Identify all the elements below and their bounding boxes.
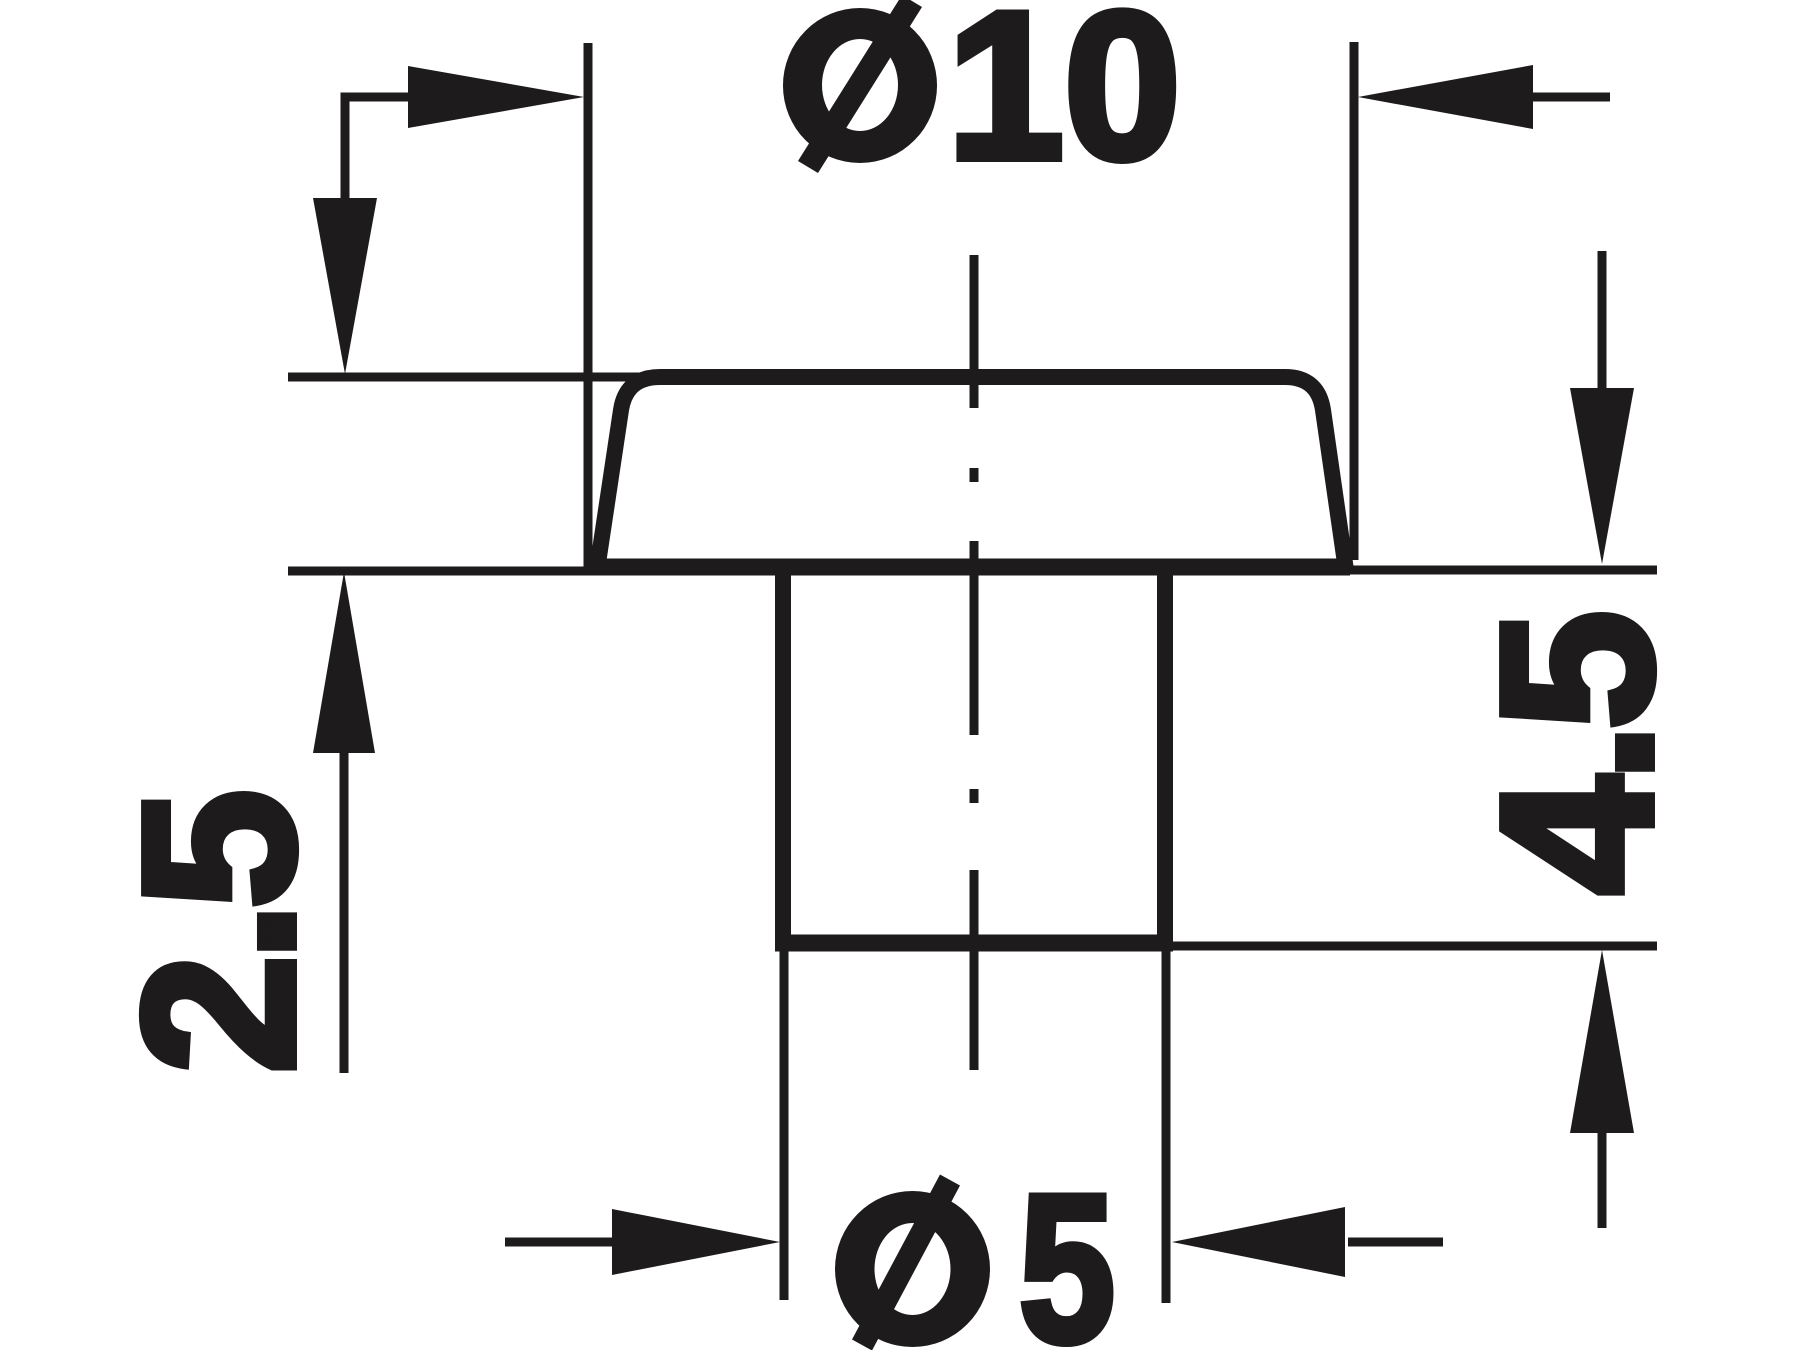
arrowhead Ø5 left (points right) bbox=[612, 1209, 780, 1275]
svg-text:4.5: 4.5 bbox=[1456, 616, 1697, 895]
arrowhead 2.5 upper (points down) bbox=[313, 198, 377, 374]
4.5 dimension tail lower bbox=[1598, 1130, 1607, 1228]
arrowhead Ø10 right (points left) bbox=[1358, 65, 1533, 129]
top plane line bbox=[288, 373, 664, 382]
centerline dash segment 2 bbox=[970, 541, 979, 735]
part outline: shank left side bbox=[775, 567, 791, 943]
centerline dash segment 3 bbox=[970, 870, 979, 1070]
centerline dash segment 1 bbox=[970, 255, 979, 408]
svg-text:10: 10 bbox=[947, 0, 1181, 203]
arrowhead Ø10 left (points right) bbox=[408, 66, 584, 128]
Ø5 extension line left bbox=[780, 950, 789, 1300]
arrowhead 4.5 upper (points down) bbox=[1570, 388, 1634, 564]
flange plane extension right bbox=[1345, 566, 1657, 575]
Ø5 dimension tail left bbox=[505, 1238, 622, 1247]
Ø10 dimension tail right bbox=[1531, 93, 1610, 102]
Ø10 dimension leader left (corner) bbox=[345, 97, 432, 200]
centerline dot 2 bbox=[970, 789, 979, 803]
arrowhead 2.5 lower (points up) bbox=[313, 572, 375, 753]
part outline: shank bottom bbox=[775, 935, 1173, 952]
extension line right of Ø10 head bbox=[1350, 42, 1359, 560]
extension line left of Ø10 head bbox=[584, 43, 593, 571]
4.5 dimension tail upper bbox=[1598, 251, 1607, 390]
centerline dot 1 bbox=[970, 468, 979, 482]
part outline: shank right side bbox=[1157, 567, 1173, 943]
arrowhead Ø5 right (points left) bbox=[1172, 1207, 1345, 1277]
dimension text Ø10: diameter symbol bbox=[783, 0, 937, 173]
Ø5 dimension tail right bbox=[1348, 1238, 1443, 1247]
flange plane extension left bbox=[288, 567, 600, 576]
part outline: flange line bbox=[590, 559, 1350, 576]
dimension text Ø5: diameter symbol bbox=[835, 1175, 990, 1350]
part outline: buffer head (cap) bbox=[597, 377, 1346, 570]
Ø5 extension line right bbox=[1162, 950, 1171, 1303]
svg-text:5: 5 bbox=[1019, 1151, 1115, 1350]
svg-text:2.5: 2.5 bbox=[98, 795, 339, 1074]
arrowhead 4.5 lower (points up) bbox=[1570, 950, 1634, 1133]
shank bottom extension right bbox=[1173, 942, 1657, 951]
2.5 dimension tail (below up arrow) bbox=[340, 750, 349, 1073]
